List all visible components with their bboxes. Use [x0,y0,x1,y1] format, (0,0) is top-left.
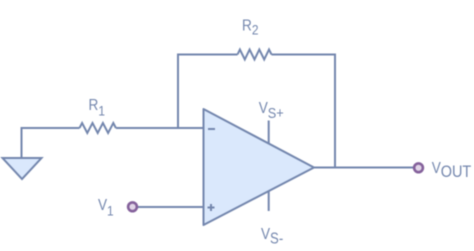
svg-text:VS-: VS- [261,226,283,248]
resistor R2 [238,50,272,60]
wire: feedback right segment (R2 down to output) [272,55,336,168]
svg-text:R1: R1 [89,97,105,119]
wire: V1 to non-inverting input [137,206,204,208]
resistor R1 [80,123,116,133]
svg-text:VS+: VS+ [259,100,284,121]
wire: ground to R1 (inverting input net) [22,128,80,158]
ground [3,158,42,179]
svg-text:VOUT: VOUT [432,160,472,181]
svg-text:R2: R2 [242,17,258,37]
svg-text:V1: V1 [98,197,114,219]
op-amp U1 [204,109,315,225]
wire: output to VOUT terminal [314,167,414,169]
pin VS+ [268,121,270,144]
op-amp U1 inverting input marker (-) [208,128,215,130]
terminal V1 [128,202,137,211]
terminal VOUT [414,163,423,172]
op-amp U1 non-inverting input marker (+) [208,204,215,211]
wire: feedback left segment (node A up to R2) [178,55,238,129]
pin VS- [268,191,270,212]
wire: R1 to inverting input [116,127,204,129]
